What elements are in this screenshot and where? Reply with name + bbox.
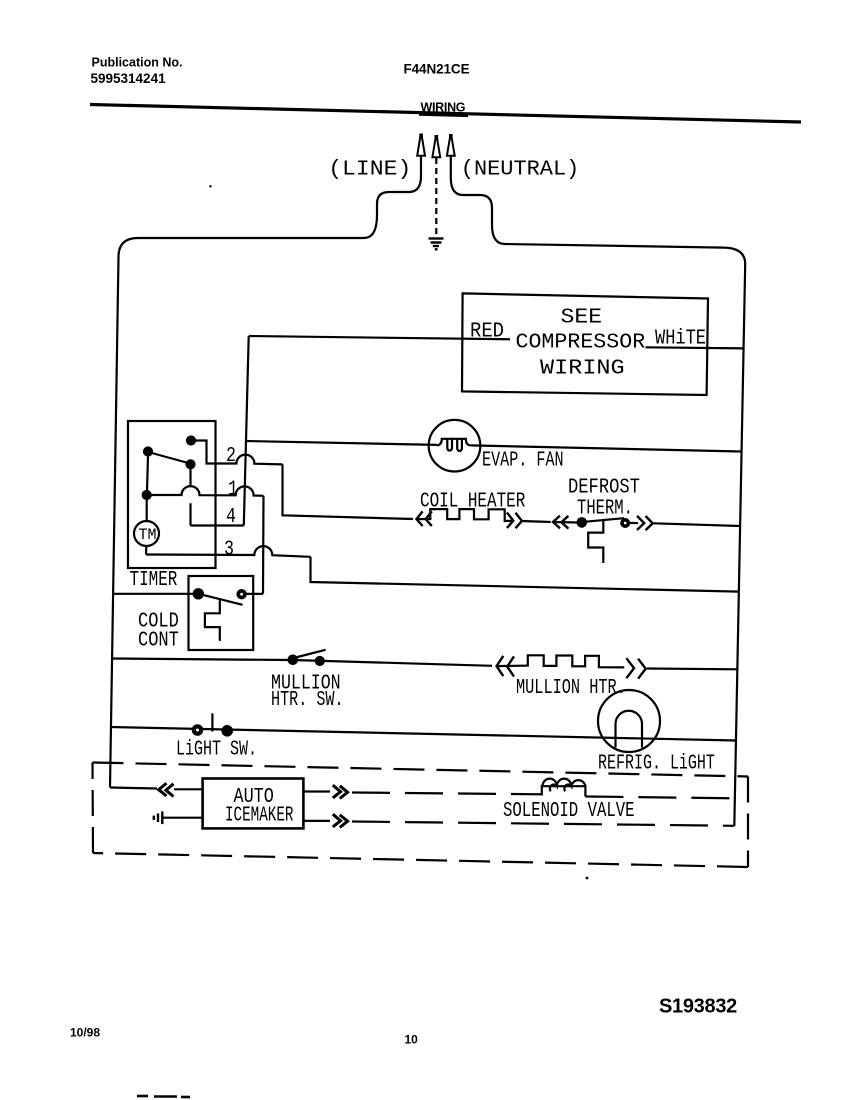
defrost chevrons right xyxy=(637,516,653,530)
svg-text:WIRING: WIRING xyxy=(540,356,625,380)
terminal 2 wire drop to coil heater row xyxy=(283,464,414,519)
stray mark dot lower xyxy=(586,877,589,880)
icemaker output wire bottom xyxy=(303,820,330,822)
timer motor TM circle xyxy=(134,521,159,546)
light switch right dot xyxy=(223,726,232,735)
refrigerator light bulb circle xyxy=(598,690,660,752)
svg-text:SEE: SEE xyxy=(561,305,603,329)
svg-text:1: 1 xyxy=(228,477,238,501)
plug prong middle (ground pin) xyxy=(432,139,440,157)
timer contact dot C (arm pivot) xyxy=(144,448,152,456)
wire ground to icemaker box xyxy=(163,817,202,819)
auto icemaker box xyxy=(203,779,304,829)
wire mullion heater to neutral rail xyxy=(647,667,738,670)
coil heater chevrons right xyxy=(507,513,522,529)
mullion heater chevrons left xyxy=(497,656,515,677)
wire from terminal 1 down to cold control xyxy=(262,496,265,594)
wire into defrost contact xyxy=(553,521,578,524)
header horizontal rule xyxy=(90,105,801,123)
wire cold control right contact up to terminal 1 xyxy=(246,593,263,595)
svg-text:TIMER: TIMER xyxy=(130,567,178,592)
mullion switch left dot xyxy=(289,656,297,664)
wire from TM to terminal 3 row xyxy=(145,546,148,555)
dashed wire solenoid to neutral rail xyxy=(585,797,734,799)
icemaker feed chevrons xyxy=(159,783,174,796)
dashed return wire to neutral rail xyxy=(352,822,734,826)
wire RED from vertical bus into compressor box xyxy=(249,336,510,339)
dashed ground lead from middle prong xyxy=(435,158,437,237)
main box top edge left section with rounded corner xyxy=(119,238,365,257)
solenoid valve coil xyxy=(542,786,586,796)
wire from neutral prong into box top edge (S curve) xyxy=(451,156,505,244)
wire from C down to D xyxy=(147,456,148,492)
timer contact dot D xyxy=(143,491,151,499)
defrost therm bimetal staircase xyxy=(588,520,603,563)
defrost therm right contact dot xyxy=(621,519,629,527)
svg-text:THERM.: THERM. xyxy=(577,496,633,520)
svg-text:TM: TM xyxy=(139,526,157,545)
stray mark dot upper xyxy=(209,185,211,187)
main box right edge (neutral side rail) xyxy=(734,264,745,826)
mullion heater element xyxy=(497,655,625,667)
icemaker output wire top xyxy=(303,790,330,792)
svg-text:CONT: CONT xyxy=(138,628,179,652)
plug prong right (neutral) xyxy=(447,138,455,156)
cold control switch arm xyxy=(203,595,243,605)
svg-text:3: 3 xyxy=(224,537,234,561)
icemaker ground symbol xyxy=(154,811,163,824)
svg-text:10/98: 10/98 xyxy=(70,1026,100,1040)
terminal 1 wire with hops xyxy=(151,486,264,496)
bottom edge scan marks xyxy=(137,1096,190,1097)
svg-text:(LINE): (LINE) xyxy=(328,157,411,181)
timer contact dot B xyxy=(187,460,195,468)
svg-text:5995314241: 5995314241 xyxy=(91,71,167,86)
wire defrost therm to neutral rail xyxy=(654,523,741,526)
defrost therm left contact dot xyxy=(578,518,586,526)
svg-text:HTR. SW.: HTR. SW. xyxy=(271,689,344,712)
wire from dot B down to terminal 4 row xyxy=(189,468,191,526)
svg-text:F44N21CE: F44N21CE xyxy=(404,62,470,77)
svg-text:EVAP. FAN: EVAP. FAN xyxy=(482,449,564,472)
coil heater chevrons left xyxy=(417,511,432,526)
defrost therm arm xyxy=(586,518,625,522)
mullion switch right dot xyxy=(316,657,324,665)
terminal 2 wire with hop over bus xyxy=(216,455,283,465)
icemaker bottom chevrons xyxy=(333,814,348,827)
evaporator fan wire xyxy=(246,441,741,452)
mullion heater switch row wire left xyxy=(112,659,290,661)
defrost therm chevrons left xyxy=(553,516,568,529)
terminal 3 wire step down xyxy=(311,557,740,592)
main box left edge (line side rail) xyxy=(110,257,119,788)
evaporator fan motor windings xyxy=(437,439,471,446)
coil heater element xyxy=(417,509,513,521)
icemaker feed wire from line rail xyxy=(110,788,157,789)
cold control box xyxy=(189,576,254,650)
svg-text:LiGHT SW.: LiGHT SW. xyxy=(176,738,257,761)
svg-text:REFRIG. LiGHT: REFRIG. LiGHT xyxy=(598,752,715,775)
svg-text:COIL HEATER: COIL HEATER xyxy=(420,488,525,513)
mullion switch arm xyxy=(296,650,326,658)
svg-text:WHiTE: WHiTE xyxy=(655,326,706,350)
svg-text:(NEUTRAL): (NEUTRAL) xyxy=(461,158,579,181)
ground symbol xyxy=(429,239,444,250)
terminal 3 wire with hop xyxy=(146,546,311,557)
wire mullion switch to heater xyxy=(293,660,492,666)
light switch plunger xyxy=(211,713,213,731)
evaporator fan motor circle xyxy=(429,420,481,472)
svg-text:Publication No.: Publication No. xyxy=(92,56,183,70)
wire WHITE from compressor box to neutral rail xyxy=(646,347,744,348)
timer switch arm C to B xyxy=(150,453,190,464)
cold control left contact dot xyxy=(194,589,203,598)
dashed icemaker compartment box xyxy=(93,763,749,777)
svg-text:10: 10 xyxy=(405,1033,419,1047)
refrigerator light filament loop xyxy=(616,711,643,748)
wire defrost to chevrons xyxy=(629,522,638,524)
light switch left dot xyxy=(193,725,202,734)
svg-text:RED: RED xyxy=(470,319,504,343)
icemaker top chevrons xyxy=(333,785,348,798)
light switch row wire xyxy=(110,727,736,741)
plug prong left (line) xyxy=(417,138,425,156)
main box top edge right section with rounded corner xyxy=(505,244,745,264)
header publication number text xyxy=(91,56,183,87)
wire left rail to cold control xyxy=(113,593,195,595)
cold control bellows staircase xyxy=(205,600,220,641)
wire chevrons to icemaker box xyxy=(174,788,203,790)
terminal 4 wire xyxy=(191,524,244,526)
mullion heater chevrons right xyxy=(626,658,645,679)
compressor reference box xyxy=(462,293,708,395)
svg-text:S193832: S193832 xyxy=(659,996,737,1018)
timer contact dot A xyxy=(187,437,195,445)
wire from line prong into box top edge (S curve) xyxy=(364,156,421,238)
wire from dot A to terminal 2 row xyxy=(195,441,216,464)
svg-text:ICEMAKER: ICEMAKER xyxy=(225,804,294,827)
vertical bus wire V1 from RED corner down to terminal 4 xyxy=(244,336,249,526)
timer box xyxy=(128,421,216,568)
wire from D down to timer motor xyxy=(146,499,148,521)
svg-text:SOLENOID VALVE: SOLENOID VALVE xyxy=(503,799,635,823)
dashed wire to solenoid valve xyxy=(352,793,542,795)
underline under WIRING xyxy=(419,115,468,116)
wire coil heater to defrost therm xyxy=(522,521,551,522)
svg-text:COMPRESSOR: COMPRESSOR xyxy=(516,331,646,355)
cold control right contact dot xyxy=(238,590,246,598)
